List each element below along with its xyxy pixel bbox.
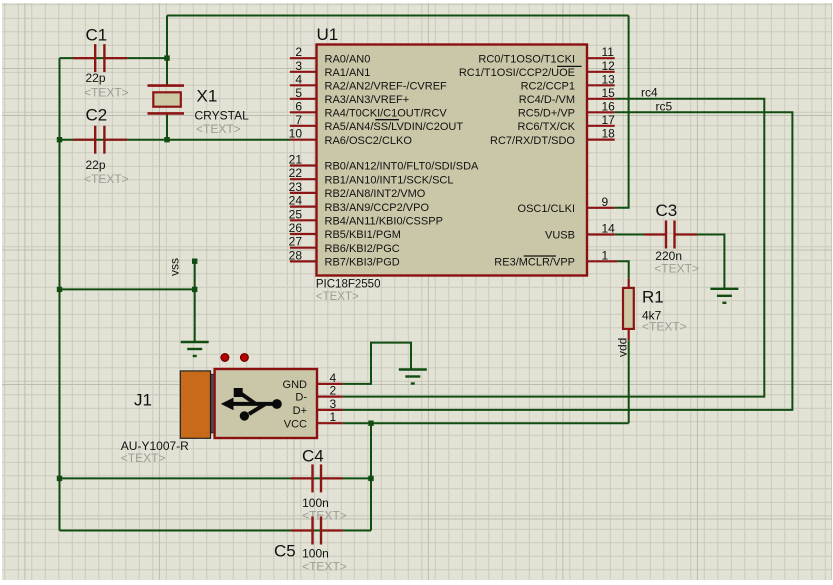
svg-text:25: 25 (289, 207, 303, 221)
wire C3 to ground (697, 235, 724, 289)
svg-text:22p: 22p (86, 71, 106, 85)
svg-text:CRYSTAL: CRYSTAL (195, 109, 250, 123)
orange body (180, 371, 210, 438)
wire rc4 net (343, 99, 765, 397)
svg-text:RC1/T1OSI/CCP2/UOE: RC1/T1OSI/CCP2/UOE (459, 67, 575, 79)
svg-text:15: 15 (602, 86, 616, 100)
svg-text:22: 22 (289, 166, 303, 180)
svg-text:D-: D- (295, 392, 307, 404)
svg-text:RB0/AN12/INT0/FLT0/SDI/SDA: RB0/AN12/INT0/FLT0/SDI/SDA (325, 161, 480, 173)
usb connector J1 (121, 354, 343, 466)
wire pin1 to R1 (617, 261, 628, 278)
svg-text:RC5/D+/VP: RC5/D+/VP (518, 108, 575, 120)
junction C1 crystal (164, 55, 169, 60)
capacitor C2 (73, 106, 129, 187)
svg-text:27: 27 (289, 235, 303, 249)
grey strip (211, 374, 215, 433)
svg-text:C4: C4 (302, 447, 324, 466)
svg-text:RB3/AN9/CCP2/VPO: RB3/AN9/CCP2/VPO (325, 202, 430, 214)
wire vcc row (343, 422, 629, 424)
svg-text:R1: R1 (642, 287, 664, 306)
shield box (215, 369, 317, 438)
svg-text:28: 28 (289, 248, 303, 262)
usb pin numbers (330, 371, 337, 424)
svg-text:RA4/T0CKI/C1OUT/RCV: RA4/T0CKI/C1OUT/RCV (325, 108, 448, 120)
svg-text:10: 10 (289, 127, 303, 141)
junction vss stub top (192, 259, 197, 264)
svg-text:3: 3 (330, 397, 337, 411)
wire usb gnd net (343, 343, 411, 384)
svg-text:D+: D+ (293, 405, 307, 417)
svg-text:RB2/AN8/INT2/VMO: RB2/AN8/INT2/VMO (325, 188, 426, 200)
svg-text:3: 3 (295, 59, 302, 73)
wire vdd vertical (628, 340, 630, 423)
left pin stubs U1 (290, 58, 317, 261)
svg-text:RE3/MCLR/VPP: RE3/MCLR/VPP (494, 257, 575, 269)
svg-text:100n: 100n (302, 546, 329, 560)
svg-text:OSC1/CLKI: OSC1/CLKI (518, 203, 575, 215)
svg-text:<TEXT>: <TEXT> (196, 122, 241, 136)
junction rail C2 (57, 137, 62, 142)
svg-text:rc4: rc4 (641, 86, 658, 100)
svg-text:RA3/AN3/VREF+: RA3/AN3/VREF+ (325, 94, 410, 106)
svg-text:24: 24 (289, 194, 303, 208)
svg-text:17: 17 (602, 113, 616, 127)
svg-text:7: 7 (295, 113, 302, 127)
sheet edges (0, 0, 833, 3)
svg-text:J1: J1 (134, 391, 152, 410)
svg-text:RB5/KBI1/PGM: RB5/KBI1/PGM (325, 229, 401, 241)
wire rc5 net (343, 112, 793, 410)
junction rail vss (57, 287, 62, 292)
right pin numbers U1 (602, 45, 616, 262)
svg-text:vdd: vdd (616, 338, 630, 357)
svg-text:C3: C3 (656, 201, 678, 220)
wire C2 row to pin10 (60, 139, 291, 141)
wire vss stub vertical (194, 261, 196, 342)
svg-text:RC2/CCP1: RC2/CCP1 (521, 81, 575, 93)
svg-text:RB7/KBI3/PGD: RB7/KBI3/PGD (325, 257, 400, 269)
led dot right (240, 354, 248, 362)
crystal X1 (148, 86, 250, 136)
svg-text:C5: C5 (274, 542, 296, 561)
svg-text:U1: U1 (317, 25, 339, 44)
svg-text:16: 16 (602, 99, 616, 113)
svg-text:4: 4 (295, 72, 302, 86)
svg-text:22p: 22p (86, 158, 106, 172)
svg-text:PIC18F2550: PIC18F2550 (316, 278, 381, 290)
svg-text:GND: GND (283, 379, 308, 391)
junction C2 crystal pin10 (164, 137, 169, 142)
ground C3 (710, 289, 738, 303)
svg-text:RB6/KBI2/PGC: RB6/KBI2/PGC (325, 243, 400, 255)
capacitor C3 (644, 201, 699, 276)
svg-text:RA5/AN4/SS/LVDIN/C2OUT: RA5/AN4/SS/LVDIN/C2OUT (325, 121, 464, 133)
overline MCLR (524, 255, 556, 257)
wire top OSC net (167, 15, 629, 17)
led dot left (221, 354, 229, 362)
svg-text:RC7/RX/DT/SDO: RC7/RX/DT/SDO (490, 135, 575, 147)
usb pin names (283, 379, 308, 430)
capacitor C4 (291, 447, 347, 523)
svg-text:11: 11 (602, 45, 615, 59)
svg-text:RA1/AN1: RA1/AN1 (325, 67, 371, 79)
svg-text:6: 6 (295, 99, 302, 113)
svg-text:<TEXT>: <TEXT> (121, 451, 166, 465)
usb pin stubs (317, 384, 343, 423)
svg-text:VUSB: VUSB (545, 230, 575, 242)
svg-text:<TEXT>: <TEXT> (642, 320, 687, 334)
wire vss row (60, 288, 195, 290)
svg-text:RB4/AN11/KBI0/CSSPP: RB4/AN11/KBI0/CSSPP (325, 216, 443, 228)
svg-text:RC6/TX/CK: RC6/TX/CK (518, 121, 576, 133)
svg-text:21: 21 (289, 153, 303, 167)
svg-text:RA6/OSC2/CLKO: RA6/OSC2/CLKO (325, 135, 413, 147)
ground below vss (181, 342, 209, 356)
right pin stubs U1 (587, 58, 617, 261)
svg-text:vss: vss (168, 258, 182, 276)
svg-text:RC0/T1OSO/T1CKI: RC0/T1OSO/T1CKI (478, 53, 575, 65)
usb trident icon (221, 388, 282, 421)
svg-text:23: 23 (289, 180, 303, 194)
svg-text:<TEXT>: <TEXT> (302, 509, 347, 523)
svg-text:2: 2 (295, 45, 302, 59)
resistor R1 (623, 279, 687, 341)
wire crystal top vertical (166, 16, 168, 86)
svg-text:26: 26 (289, 221, 303, 235)
svg-text:1: 1 (330, 410, 337, 424)
wire crystal bottom vertical (166, 113, 168, 139)
svg-text:<TEXT>: <TEXT> (654, 262, 699, 276)
svg-text:18: 18 (602, 127, 616, 141)
svg-text:<TEXT>: <TEXT> (316, 291, 359, 303)
svg-text:13: 13 (602, 72, 616, 86)
wire C1 row (60, 57, 168, 59)
wire vcc vertical to C4 C5 (370, 423, 372, 530)
overline UOE (557, 65, 582, 67)
svg-text:RA2/AN2/VREF-/CVREF: RA2/AN2/VREF-/CVREF (325, 81, 448, 93)
wire C4 row (60, 477, 372, 479)
svg-text:12: 12 (602, 59, 616, 73)
junction C4 vcc (368, 476, 373, 481)
wire pin9 OSC1 vertical (615, 16, 629, 208)
svg-text:14: 14 (602, 222, 616, 236)
left pin labels U1 (325, 53, 480, 268)
svg-text:<TEXT>: <TEXT> (302, 560, 347, 574)
svg-text:<TEXT>: <TEXT> (84, 172, 129, 186)
svg-text:2: 2 (330, 384, 337, 398)
svg-text:5: 5 (295, 86, 302, 100)
svg-text:C1: C1 (86, 26, 108, 45)
capacitor C5 (274, 517, 347, 574)
svg-text:RA0/AN0: RA0/AN0 (325, 53, 371, 65)
svg-text:1: 1 (602, 248, 609, 262)
junction rail C4 (57, 476, 62, 481)
overline SS (375, 119, 399, 121)
svg-text:RB1/AN10/INT1/SCK/SCL: RB1/AN10/INT1/SCK/SCL (325, 174, 454, 186)
wire left rail (59, 58, 61, 530)
svg-text:C2: C2 (86, 106, 108, 125)
svg-text:rc5: rc5 (656, 100, 673, 114)
svg-text:VCC: VCC (284, 418, 307, 430)
svg-text:X1: X1 (197, 86, 218, 105)
op chip U1 PIC18F2550 (317, 45, 588, 276)
wire C5 row (60, 530, 372, 532)
capacitor C1 (73, 26, 129, 100)
junction vcc tee (368, 421, 373, 426)
junction vss tee (192, 287, 197, 292)
svg-text:RC4/D-/VM: RC4/D-/VM (519, 94, 575, 106)
left pin numbers U1 (289, 45, 303, 262)
wire pin14 to C3 (615, 234, 644, 236)
ground usb (399, 370, 427, 384)
right pin labels U1 (459, 53, 576, 268)
svg-text:9: 9 (602, 195, 609, 209)
svg-text:<TEXT>: <TEXT> (84, 85, 129, 99)
